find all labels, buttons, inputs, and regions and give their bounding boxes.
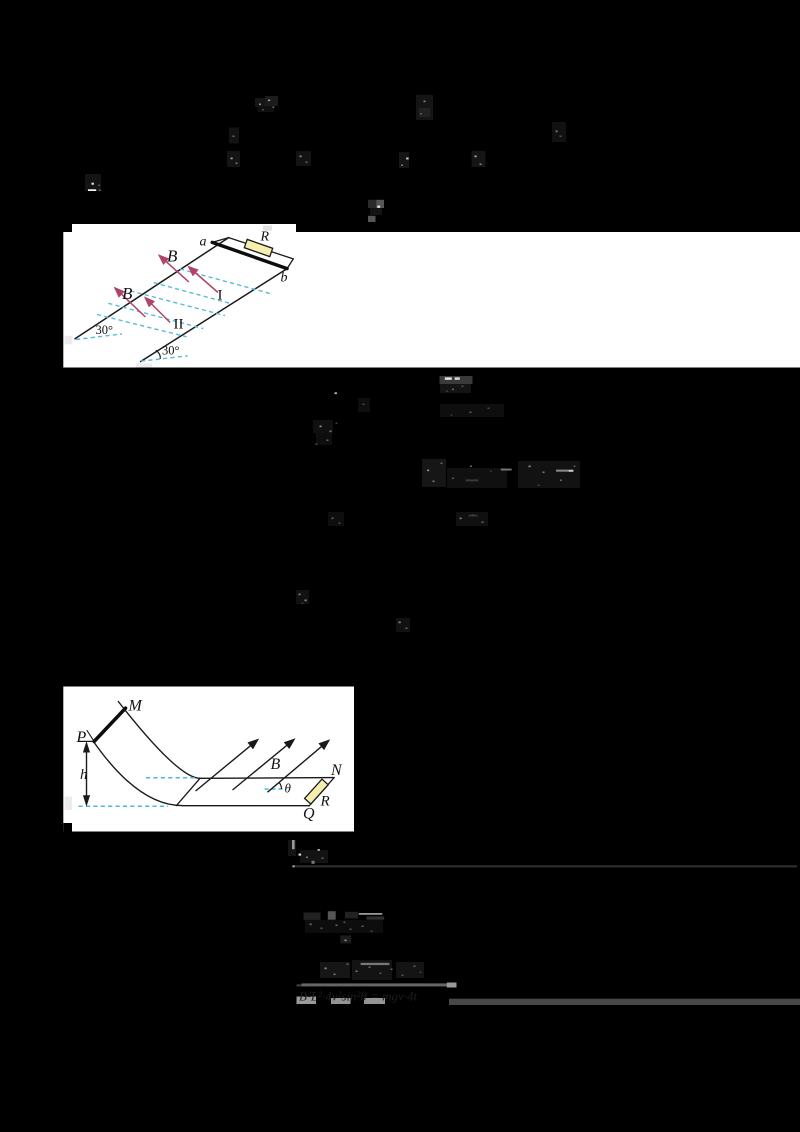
faint residue far right: [552, 122, 566, 142]
white band containing figure 2: [63, 687, 354, 832]
faint residue cluster mid: [296, 151, 311, 166]
cyan dashed field-region boundary lines: [76, 269, 272, 361]
svg-text:N: N: [330, 762, 343, 779]
svg-text:30°: 30°: [162, 344, 180, 358]
flat bottom line to Q: [182, 805, 309, 807]
conducting rod ab (thick): [212, 242, 287, 268]
svg-text:P: P: [76, 729, 87, 746]
faint residue right of formula 2: [472, 151, 486, 167]
white band containing figure 1: [63, 232, 800, 368]
cyan dashed level line lower: [79, 805, 169, 807]
faint residue y~512-526: [328, 512, 488, 526]
faint residue row y~404-418: [440, 404, 504, 417]
30 degree angle arc at right vertex: [156, 350, 161, 359]
svg-text:B: B: [271, 756, 281, 773]
resistor R fig2 on right edge: [305, 779, 329, 804]
faint residue y~590: [296, 590, 309, 604]
faint formula row with fraction bars y~460-495: [422, 459, 580, 488]
svg-text:M: M: [128, 698, 144, 715]
svg-text:a: a: [200, 235, 207, 250]
upper curve of ramp: [118, 702, 200, 779]
cyan dashed level line upper: [146, 777, 197, 779]
right edge N to Q: [309, 778, 334, 806]
gray strip to right margin: [449, 999, 800, 1005]
svg-text:Q: Q: [303, 806, 315, 823]
faint residue cluster left margin: [227, 128, 240, 168]
black notch bottom-left of figure 2 band: [63, 823, 72, 832]
faint residue b2 below figure 2: [288, 840, 328, 864]
dashed line D4: [108, 303, 203, 328]
theta angle arc: [279, 783, 281, 789]
dashed line D3: [130, 291, 225, 316]
highlighted denominator row with gray strip: [297, 989, 418, 1005]
svg-text:B²L²·4v²sin²θ = mgv·4t: B²L²·4v²sin²θ = mgv·4t: [299, 989, 418, 1004]
parallelogram left edge: [176, 778, 200, 805]
flat top line to N: [200, 777, 334, 780]
faint residue y~620: [396, 618, 410, 632]
top wire corner1 to corner2 through resistor: [229, 238, 294, 259]
svg-text:B: B: [167, 247, 178, 266]
svg-text:θ: θ: [285, 781, 292, 796]
rod PM (thick): [94, 708, 125, 741]
dashed line D2: [154, 283, 231, 304]
long faint horizontal rule y~866: [293, 865, 798, 867]
left rail: [75, 238, 229, 339]
dashed line at right 30 degree vertex: [141, 356, 188, 361]
gray remnant above resistor R: [263, 226, 272, 231]
gray remnant fig1 bottom notch: [136, 363, 152, 367]
big fraction bar y~984: [302, 983, 456, 986]
svg-text:R: R: [320, 794, 330, 810]
svg-text:I: I: [218, 288, 223, 304]
faint formula y~959-981: [320, 960, 424, 980]
dashed line D1: [180, 269, 272, 294]
h dimension arrow (double headed): [84, 743, 90, 805]
white band figure 1 raised top strip: [72, 224, 296, 233]
dashed line D5: [97, 315, 187, 337]
magnetic field arrows fig2 (black): [196, 740, 329, 793]
wire corner2 down to rod end b: [287, 259, 293, 269]
faint residue under formula 2: [399, 152, 409, 168]
svg-text:h: h: [80, 767, 88, 783]
FIGURE 1 : inclined plane with rails, rod ab, resistor R: [75, 238, 293, 362]
cyan dashed short line at theta: [265, 788, 284, 790]
FIGURE 2 : curved ramp PM with flat field region MNQP: [79, 702, 335, 807]
gray remnant fig1 bottom left 30 degree cut: [65, 336, 73, 345]
faint residue cluster formula 2 top: [416, 95, 433, 120]
lower curve of ramp: [94, 742, 182, 806]
gray blocks above figure 1 right: [368, 200, 384, 222]
dashed line at left 30 degree vertex: [76, 334, 122, 340]
magnetic field arrows (crimson) region I: [115, 256, 218, 323]
ledge under P: [79, 740, 95, 742]
faint speck cluster y~418-448: [313, 398, 370, 445]
thin rail tip above P: [87, 731, 94, 742]
svg-text:B: B: [122, 284, 133, 303]
svg-text:30°: 30°: [96, 323, 114, 337]
right rail: [141, 269, 288, 362]
svg-text:II: II: [174, 317, 184, 333]
faint highlighted characters below figure 1: [335, 376, 473, 394]
svg-text:b: b: [281, 271, 288, 286]
gray remnant fig2 left: [65, 797, 73, 811]
faint formula with fraction y~911-944: [304, 911, 385, 943]
resistor R (yellow box on top wire): [244, 239, 272, 256]
faint residue cluster top formula 1: [255, 96, 278, 112]
top wire a to corner1: [212, 238, 229, 243]
problem number 2.: [85, 174, 101, 191]
svg-text:R: R: [260, 230, 270, 245]
